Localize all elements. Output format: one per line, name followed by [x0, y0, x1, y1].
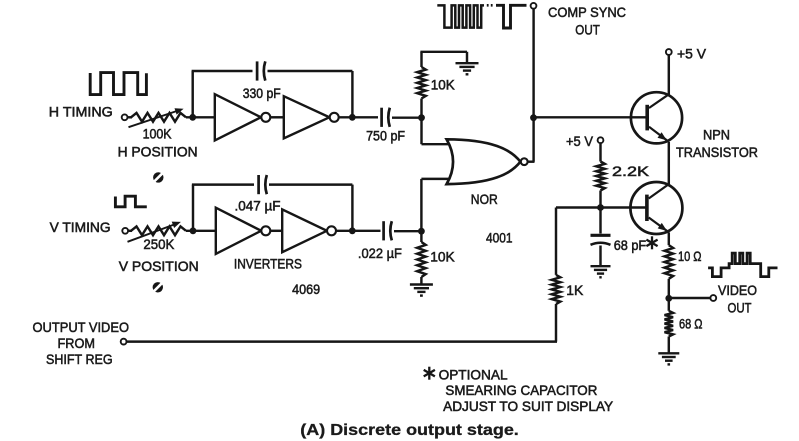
- svg-text:NPN: NPN: [703, 126, 730, 142]
- svg-text:68 Ω: 68 Ω: [679, 316, 703, 332]
- wire comp sync node to Q1 base: [534, 116, 633, 118]
- label INVERTERS: [234, 255, 302, 271]
- label SHIFT REG: [46, 351, 113, 367]
- label +5 V (2.2K): [566, 133, 594, 149]
- node +5V terminal (Q1): [666, 49, 672, 55]
- svg-text:SHIFT REG: SHIFT REG: [46, 351, 113, 367]
- wire Q1 collector to +5V: [668, 55, 670, 95]
- label 68 ohm: [679, 316, 703, 332]
- label VIDEO: [718, 282, 757, 298]
- label 10K (V): [430, 249, 455, 265]
- svg-text:INVERTERS: INVERTERS: [234, 255, 302, 271]
- label H TIMING: [49, 103, 113, 119]
- node H TIMING input terminal: [122, 114, 128, 120]
- svg-text:.047 µF: .047 µF: [235, 198, 281, 214]
- resistor 250K potentiometer: [128, 222, 187, 242]
- wire Q1 emitter to Q2 collector: [668, 142, 670, 184]
- ground (below 68 ohm): [658, 353, 679, 364]
- svg-text:OPTIONAL: OPTIONAL: [439, 366, 508, 382]
- wire OUTPUT VIDEO line: [126, 340, 557, 342]
- svg-text:V TIMING: V TIMING: [50, 219, 111, 235]
- label 10K (H): [431, 77, 456, 93]
- svg-text:FROM: FROM: [58, 335, 96, 351]
- ground (below 10K V): [410, 285, 433, 296]
- svg-text:V POSITION: V POSITION: [119, 258, 199, 274]
- label SMEARING CAPACITOR: [445, 382, 597, 398]
- wire 750pF to node A: [392, 116, 422, 118]
- label 10 ohm: [678, 248, 702, 264]
- resistor 2.2K: [596, 143, 605, 208]
- resistor 10K (H): [417, 67, 426, 99]
- node junction H pot / feedback: [189, 114, 196, 121]
- wire U1a to U1b: [270, 116, 284, 118]
- label .047 uF: [235, 198, 281, 214]
- svg-text:10K: 10K: [430, 249, 455, 265]
- svg-text:10K: 10K: [431, 77, 456, 93]
- wire V feedback right vertical: [351, 185, 353, 231]
- trimmer screw H position: [153, 172, 163, 182]
- label ADJUST TO SUIT DISPLAY: [443, 398, 614, 414]
- label OUT (comp sync): [575, 21, 600, 37]
- op-amp inverter U1a (4069): [215, 94, 270, 140]
- wire Q2 emitter to 10 ohm: [668, 232, 670, 245]
- label H POSITION: [118, 143, 198, 159]
- transistor Q2 NPN: [630, 182, 682, 234]
- wire H feedback right vertical: [351, 71, 353, 117]
- wire H feedback top right segment: [268, 70, 353, 72]
- label 1K: [566, 282, 584, 298]
- svg-text:1K: 1K: [566, 282, 584, 298]
- label .022 uF: [358, 245, 402, 261]
- wire node B up to NOR input 2: [421, 179, 462, 231]
- svg-text:ADJUST TO SUIT DISPLAY: ADJUST TO SUIT DISPLAY: [443, 398, 614, 414]
- label 4069: [292, 281, 320, 297]
- svg-text:VIDEO: VIDEO: [718, 282, 757, 298]
- label 750 pF: [366, 128, 405, 144]
- label +5 V (Q1): [677, 45, 707, 61]
- op-amp inverter U2b (4069): [282, 209, 336, 252]
- node V TIMING input terminal: [122, 228, 128, 234]
- wire V feedback left vertical: [192, 185, 194, 231]
- wire U2b output to .022uF: [336, 230, 381, 232]
- node VIDEO OUT terminal: [710, 295, 716, 301]
- capacitor 330 pF: [257, 61, 265, 80]
- svg-text:+5 V: +5 V: [566, 133, 594, 149]
- wire H feedback left vertical: [191, 71, 193, 117]
- svg-text:H POSITION: H POSITION: [118, 143, 198, 159]
- V timing input waveform: [115, 196, 146, 207]
- svg-text:COMP SYNC: COMP SYNC: [548, 4, 626, 20]
- wire H feedback top left segment: [192, 70, 253, 72]
- label OPTIONAL: [439, 366, 508, 382]
- wire NOR output to comp sync riser: [528, 160, 535, 162]
- NOR output bubble: [521, 158, 528, 165]
- label TRANSISTOR: [676, 144, 758, 160]
- resistor 68 ohm: [665, 298, 674, 353]
- wire input to pot V: [128, 230, 132, 232]
- video output waveform: [708, 253, 777, 277]
- trimmer screw V position: [153, 282, 163, 292]
- svg-text:330 pF: 330 pF: [243, 85, 281, 101]
- label 100K: [143, 126, 173, 142]
- wire U1b output to 750pF: [339, 116, 378, 118]
- resistor 10K (V): [417, 231, 426, 284]
- label NOR: [471, 191, 498, 207]
- label OUTPUT VIDEO: [33, 319, 130, 335]
- comp sync output waveform: [437, 5, 484, 27]
- node junction Q2 base / 2.2K / 68pF: [597, 204, 604, 211]
- svg-text:100K: 100K: [143, 126, 173, 142]
- node A junction 750pF/10K/NOR input: [418, 114, 425, 121]
- asterisk optional note: [424, 367, 435, 380]
- resistor 10 ohm: [665, 245, 674, 298]
- NOR gate U3 (4001): [447, 139, 521, 184]
- svg-text:(A) Discrete output stage.: (A) Discrete output stage.: [300, 422, 519, 439]
- resistor 100K potentiometer: [129, 108, 187, 127]
- label FROM: [58, 335, 96, 351]
- caption (A) Discrete output stage.: [300, 422, 519, 439]
- node COMP SYNC OUT terminal: [531, 3, 537, 9]
- ground (top, near 10K H): [456, 63, 479, 74]
- label V POSITION: [119, 258, 199, 274]
- capacitor .047 uF: [259, 175, 267, 194]
- svg-text:OUT: OUT: [728, 300, 752, 316]
- wire to VIDEO OUT terminal: [669, 297, 711, 299]
- wire pot to inverter U2a: [186, 230, 217, 232]
- svg-text:2.2K: 2.2K: [612, 163, 650, 179]
- label 330 pF: [243, 85, 281, 101]
- label 68 pF: [614, 237, 647, 253]
- wire pot to inverter U1a: [186, 116, 216, 118]
- capacitor .022 uF: [384, 221, 392, 240]
- wire U2a to U2b: [270, 230, 282, 232]
- svg-text:OUT: OUT: [575, 21, 600, 37]
- node OUTPUT VIDEO terminal: [121, 339, 127, 345]
- wire V feedback top left segment: [192, 183, 254, 185]
- svg-text:10 Ω: 10 Ω: [678, 248, 702, 264]
- svg-text:TRANSISTOR: TRANSISTOR: [676, 144, 758, 160]
- label OUT (video): [728, 300, 752, 316]
- node junction U1b output / feedback: [349, 114, 356, 121]
- svg-text:OUTPUT VIDEO: OUTPUT VIDEO: [33, 319, 130, 335]
- resistor 1K: [552, 208, 561, 342]
- label 250K: [143, 236, 175, 252]
- svg-text:4001: 4001: [486, 229, 513, 245]
- capacitor 750 pF: [382, 108, 390, 127]
- node B junction .022uF/10K/NOR input: [418, 228, 425, 235]
- wire node A up to resistor R 10K: [420, 99, 422, 118]
- svg-text:SMEARING CAPACITOR: SMEARING CAPACITOR: [445, 382, 597, 398]
- label V TIMING: [50, 219, 111, 235]
- node junction video out: [665, 295, 672, 302]
- wire 10K top to ground: [420, 52, 467, 67]
- wire .022uF to node B: [394, 230, 421, 232]
- wire comp sync vertical riser: [532, 9, 534, 162]
- label 4001: [486, 229, 513, 245]
- transistor Q1 NPN: [630, 92, 682, 143]
- node +5V terminal (2.2K): [598, 137, 604, 143]
- wire input to pot: [128, 116, 133, 118]
- svg-text:68 pF: 68 pF: [614, 237, 647, 253]
- svg-text:.022 µF: .022 µF: [358, 245, 402, 261]
- node junction comp sync / Q1 base: [530, 114, 537, 121]
- wire V feedback top right segment: [269, 183, 352, 185]
- label NPN: [703, 126, 730, 142]
- label 2.2K: [612, 163, 650, 179]
- ground (below 68pF): [591, 266, 611, 277]
- node junction V pot / feedback: [190, 227, 197, 234]
- wire node A down to NOR input 1: [422, 118, 463, 145]
- svg-text:750 pF: 750 pF: [366, 128, 405, 144]
- capacitor 68 pF (smearing): [591, 208, 611, 266]
- wire Q2 base line: [556, 206, 646, 208]
- svg-text:H TIMING: H TIMING: [49, 103, 113, 119]
- node junction U2b output / feedback: [349, 227, 356, 234]
- op-amp inverter U1b (4069): [284, 96, 339, 138]
- asterisk by 68pF: [646, 236, 657, 249]
- svg-text:NOR: NOR: [471, 191, 498, 207]
- svg-text:4069: 4069: [292, 281, 320, 297]
- label COMP SYNC: [548, 4, 626, 20]
- svg-text:250K: 250K: [143, 236, 175, 252]
- op-amp inverter U2a (4069): [216, 208, 270, 254]
- svg-text:+5 V: +5 V: [677, 45, 707, 61]
- H timing input waveform: [90, 73, 146, 95]
